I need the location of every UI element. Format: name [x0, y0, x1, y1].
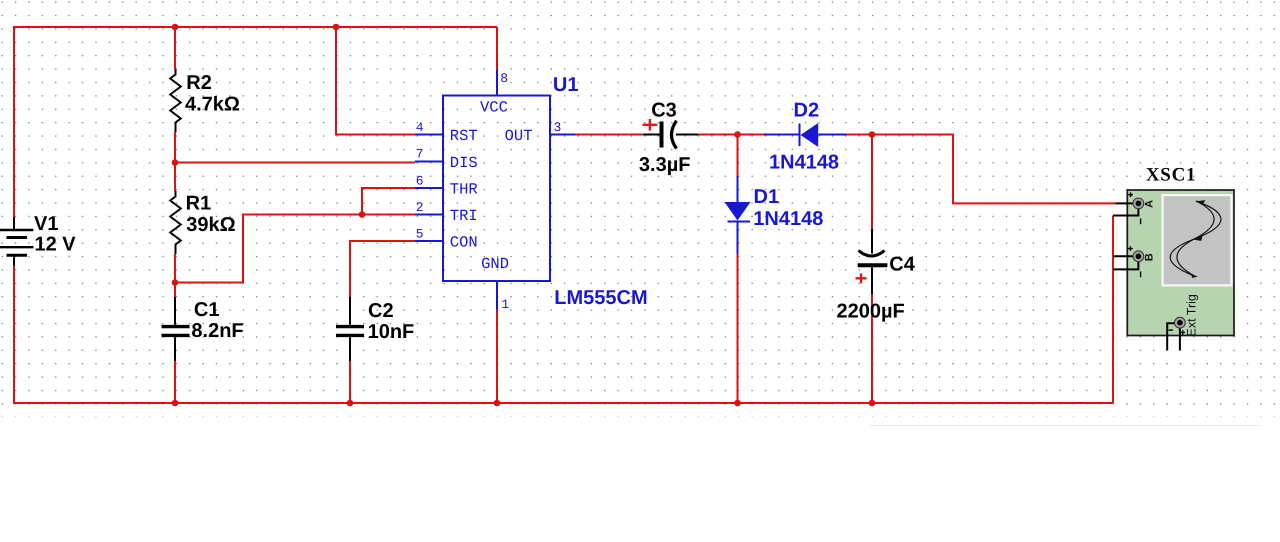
svg-text:6: 6 — [416, 174, 424, 189]
svg-text:8: 8 — [500, 71, 508, 86]
svg-text:Ext Trig: Ext Trig — [1185, 294, 1199, 336]
svg-text:2: 2 — [416, 200, 424, 215]
svg-text:R1: R1 — [186, 192, 212, 214]
svg-text:12 V: 12 V — [35, 234, 77, 256]
svg-text:B: B — [1143, 253, 1155, 261]
svg-text:3.3µF: 3.3µF — [639, 154, 691, 176]
svg-text:V1: V1 — [34, 213, 58, 235]
svg-text:4.7kΩ: 4.7kΩ — [185, 94, 240, 116]
svg-text:DIS: DIS — [450, 154, 478, 172]
svg-text:10nF: 10nF — [368, 321, 415, 343]
svg-text:D2: D2 — [794, 99, 820, 121]
svg-text:A: A — [1143, 200, 1155, 208]
svg-text:OUT: OUT — [505, 127, 533, 145]
svg-text:THR: THR — [450, 180, 478, 198]
svg-text:VCC: VCC — [480, 98, 508, 116]
svg-text:C2: C2 — [368, 300, 394, 322]
svg-text:3: 3 — [554, 120, 562, 135]
svg-text:C3: C3 — [651, 100, 677, 122]
svg-text:39kΩ: 39kΩ — [186, 214, 235, 236]
svg-text:1N4148: 1N4148 — [769, 152, 839, 174]
svg-text:TRI: TRI — [450, 207, 478, 225]
svg-text:4: 4 — [416, 120, 424, 135]
svg-text:XSC1: XSC1 — [1146, 164, 1196, 185]
svg-text:GND: GND — [481, 255, 509, 273]
svg-text:U1: U1 — [553, 74, 579, 96]
svg-text:LM555CM: LM555CM — [554, 287, 647, 309]
svg-text:8.2nF: 8.2nF — [191, 320, 243, 342]
svg-text:C4: C4 — [889, 253, 915, 275]
svg-text:2200µF: 2200µF — [837, 301, 905, 323]
svg-text:5: 5 — [416, 226, 424, 241]
svg-text:D1: D1 — [754, 186, 780, 208]
svg-text:7: 7 — [416, 147, 424, 162]
svg-text:CON: CON — [450, 233, 478, 251]
svg-text:C1: C1 — [194, 299, 220, 321]
svg-text:1: 1 — [501, 297, 509, 312]
svg-text:1N4148: 1N4148 — [753, 208, 823, 230]
svg-text:RST: RST — [450, 127, 478, 145]
svg-text:R2: R2 — [186, 72, 212, 94]
